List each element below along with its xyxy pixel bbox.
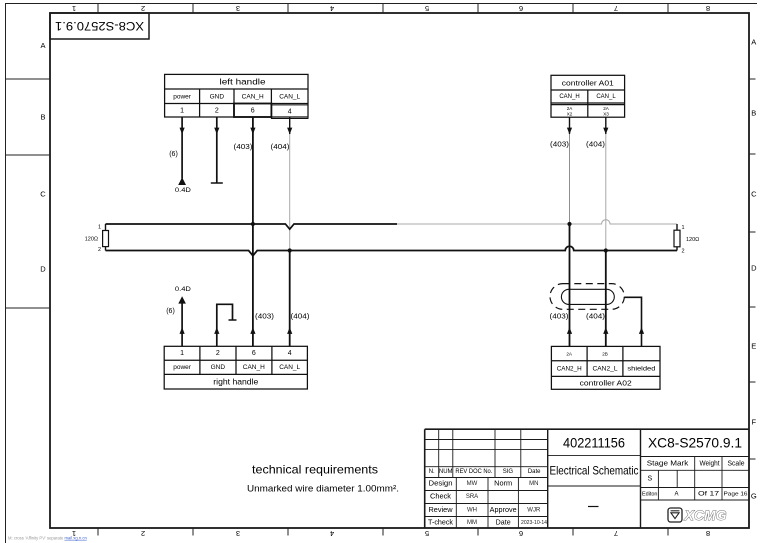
- svg-text:B: B: [40, 113, 45, 122]
- shield symbol around CAN pair (inner ring): [561, 289, 614, 304]
- svg-text:GND: GND: [211, 364, 226, 371]
- svg-text:GND: GND: [210, 93, 225, 100]
- shield symbol outer dashed ring: [550, 284, 624, 310]
- svg-text:3: 3: [236, 529, 240, 538]
- svg-text:2: 2: [141, 529, 145, 538]
- svg-text:A: A: [674, 491, 678, 497]
- svg-text:0.4D: 0.4D: [175, 187, 191, 194]
- svg-text:1: 1: [682, 225, 685, 231]
- svg-text:WH: WH: [467, 507, 477, 513]
- title block grid: [425, 429, 749, 528]
- svg-text:XCMG: XCMG: [683, 508, 727, 523]
- svg-text:F: F: [752, 418, 757, 427]
- svg-text:1: 1: [180, 350, 184, 357]
- svg-text:C: C: [40, 190, 46, 199]
- wire 404: left handle CAN_L down to bus and right handle: [271, 117, 293, 346]
- svg-text:(404): (404): [586, 142, 605, 149]
- terminator resistor 120 Ohm (left): [85, 224, 109, 253]
- wire: left handle GND drop with terminal bar: [211, 117, 223, 183]
- svg-text:2: 2: [682, 249, 685, 255]
- svg-text:Date: Date: [528, 469, 541, 475]
- connector table: controller A01: [551, 75, 625, 117]
- svg-text:right handle: right handle: [213, 377, 259, 386]
- svg-text:Review: Review: [429, 507, 454, 514]
- svg-text:power: power: [173, 93, 192, 100]
- svg-text:C: C: [751, 190, 757, 199]
- CAN bus top line (CAN_H) with hops: [106, 220, 678, 230]
- svg-text:Of 17: Of 17: [698, 491, 720, 497]
- svg-text:2A: 2A: [567, 106, 574, 111]
- svg-text:2B: 2B: [602, 352, 608, 357]
- svg-text:CAN_H: CAN_H: [559, 94, 579, 100]
- note: technical requirements: [247, 462, 399, 494]
- svg-text:NUM: NUM: [439, 469, 453, 475]
- CAN bus bottom line (CAN_L) with hops: [106, 246, 678, 255]
- svg-text:Check: Check: [430, 494, 452, 501]
- svg-text:controller A01: controller A01: [562, 79, 614, 88]
- arrows into right handle CAN pins + labels: [250, 314, 309, 334]
- svg-text:E: E: [751, 342, 756, 351]
- svg-text:2: 2: [215, 107, 219, 114]
- svg-text:Stage Mark: Stage Mark: [647, 461, 689, 468]
- svg-text:B: B: [751, 109, 756, 118]
- svg-text:Page 16: Page 16: [724, 491, 748, 497]
- stage/weight/scale row: [647, 461, 745, 483]
- svg-text:MW: MW: [467, 481, 478, 487]
- svg-text:Editon: Editon: [642, 491, 658, 497]
- svg-text:XC8-S2570.9.1: XC8-S2570.9.1: [55, 19, 144, 33]
- svg-text:SIG: SIG: [503, 469, 514, 475]
- svg-text:1: 1: [72, 4, 76, 13]
- dash placeholder: [588, 506, 599, 508]
- svg-text:4: 4: [330, 529, 334, 538]
- svg-text:5: 5: [425, 529, 429, 538]
- connector table: right handle: [164, 346, 307, 389]
- svg-text:(403): (403): [550, 314, 569, 321]
- XCMG logo: [668, 508, 727, 523]
- svg-text:6: 6: [251, 107, 255, 114]
- svg-text:Unmarked wire diameter 1.00mm²: Unmarked wire diameter 1.00mm².: [247, 484, 399, 495]
- svg-text:2A: 2A: [603, 106, 610, 111]
- svg-text:(404): (404): [586, 314, 605, 321]
- wire 403: controller A01 CAN_H down to bus and A02: [550, 117, 572, 346]
- svg-text:120Ω: 120Ω: [85, 237, 98, 243]
- svg-text:G: G: [751, 492, 757, 501]
- title block signature rows: [428, 481, 517, 527]
- junction dots: [251, 222, 608, 253]
- svg-text:Date: Date: [496, 520, 511, 527]
- title block header row texts: [429, 469, 541, 475]
- svg-text:6: 6: [519, 529, 523, 538]
- svg-text:MN: MN: [529, 481, 538, 487]
- terminator resistor 120 Ohm (right): [674, 224, 699, 255]
- svg-text:(404): (404): [291, 314, 310, 321]
- wire 404: controller A01 CAN_L down to bus and A02: [586, 117, 608, 346]
- svg-text:CAN2_H: CAN2_H: [557, 365, 582, 372]
- svg-text:Scale: Scale: [728, 461, 745, 468]
- svg-text:T-check: T-check: [428, 520, 454, 527]
- svg-text:4: 4: [330, 4, 334, 13]
- svg-text:N.: N.: [429, 469, 435, 475]
- svg-text:120Ω: 120Ω: [686, 237, 699, 243]
- drawing number box XC8-S2570.9.1 (rotated): [50, 13, 149, 39]
- svg-text:X2: X2: [567, 112, 573, 117]
- svg-text:shielded: shielded: [627, 365, 655, 372]
- svg-text:6: 6: [519, 4, 523, 13]
- svg-text:(6): (6): [169, 151, 178, 158]
- svg-text:power: power: [173, 364, 192, 371]
- svg-text:D: D: [751, 264, 757, 273]
- svg-text:(403): (403): [234, 144, 253, 151]
- svg-text:A: A: [40, 41, 45, 50]
- svg-text:(403): (403): [255, 314, 274, 321]
- svg-text:2A: 2A: [566, 352, 573, 357]
- svg-text:CAN_L: CAN_L: [279, 93, 300, 100]
- svg-text:CAN_L: CAN_L: [279, 364, 300, 371]
- svg-text:controller A02: controller A02: [580, 379, 632, 388]
- svg-text:D: D: [40, 265, 46, 274]
- svg-text:2: 2: [216, 350, 220, 357]
- arrows into A02 pins: [567, 327, 609, 334]
- svg-text:2023-10-14: 2023-10-14: [521, 520, 547, 526]
- svg-text:(6): (6): [166, 308, 175, 315]
- svg-text:0.4D: 0.4D: [175, 286, 191, 293]
- svg-text:8: 8: [706, 529, 710, 538]
- svg-text:3: 3: [236, 4, 240, 13]
- wire 403: left handle CAN_H down to bus and right handle: [234, 117, 256, 346]
- svg-text:REV DOC No.: REV DOC No.: [455, 469, 492, 475]
- svg-text:CAN_H: CAN_H: [243, 364, 265, 371]
- svg-text:Approve: Approve: [490, 507, 517, 514]
- svg-text:XC8-S2570.9.1: XC8-S2570.9.1: [648, 435, 742, 451]
- wire: left handle power (6) to 0.4D: [169, 117, 191, 194]
- svg-text:1: 1: [180, 107, 184, 114]
- svg-text:7: 7: [614, 529, 618, 538]
- svg-text:402211156: 402211156: [563, 435, 625, 451]
- svg-text:CAN_L: CAN_L: [596, 94, 616, 100]
- svg-text:4: 4: [288, 109, 292, 116]
- svg-text:(403): (403): [550, 142, 569, 149]
- svg-text:6: 6: [252, 350, 256, 357]
- svg-text:(404): (404): [271, 144, 290, 151]
- svg-text:Weight: Weight: [700, 461, 720, 468]
- svg-text:MM: MM: [467, 520, 477, 526]
- svg-text:S: S: [647, 475, 652, 482]
- svg-text:M: cross 'Affinity PV' separat: M: cross 'Affinity PV' separate mail.xg.…: [8, 536, 87, 541]
- svg-text:SRA: SRA: [466, 494, 478, 500]
- svg-text:A: A: [751, 38, 756, 47]
- connector table: controller A02: [551, 346, 660, 389]
- svg-text:2: 2: [141, 4, 145, 13]
- svg-text:Design: Design: [429, 481, 453, 488]
- svg-text:7: 7: [614, 4, 618, 13]
- svg-text:Norm: Norm: [494, 481, 512, 488]
- wire: right handle GND hook with terminal bar: [214, 304, 236, 346]
- svg-text:left handle: left handle: [220, 78, 267, 87]
- svg-text:CAN2_L: CAN2_L: [593, 365, 618, 372]
- svg-text:4: 4: [288, 350, 292, 357]
- svg-text:CAN_H: CAN_H: [242, 93, 264, 100]
- svg-text:8: 8: [706, 4, 710, 13]
- svg-text:X3: X3: [603, 112, 609, 117]
- svg-text:5: 5: [425, 4, 429, 13]
- svg-text:WJR: WJR: [527, 507, 541, 513]
- wire: right handle power arrow 0.4D: [166, 286, 191, 347]
- svg-text:2: 2: [98, 247, 101, 253]
- wire: shield to A02 shielded pin: [624, 297, 644, 346]
- svg-text:Electrical Schematic: Electrical Schematic: [550, 464, 639, 478]
- connector table: left handle: [165, 74, 308, 118]
- svg-text:1: 1: [98, 225, 101, 231]
- svg-text:technical requirements: technical requirements: [252, 462, 378, 476]
